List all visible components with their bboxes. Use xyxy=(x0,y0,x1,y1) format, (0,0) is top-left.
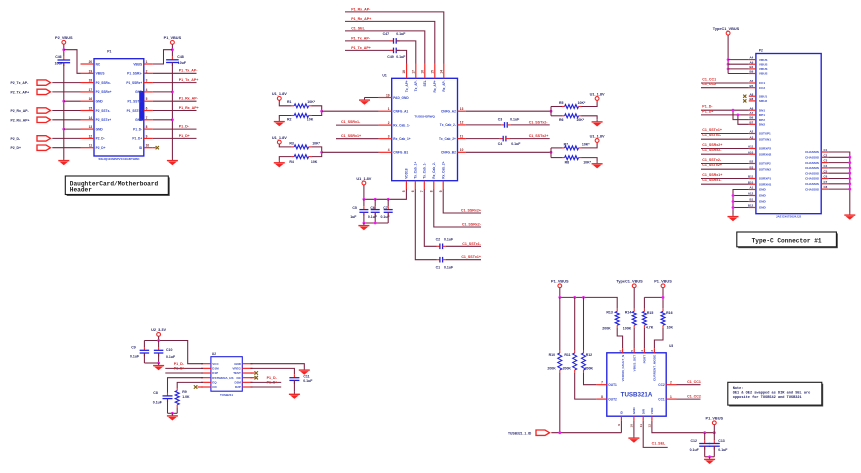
svg-text:SSTXN1: SSTXN1 xyxy=(759,137,771,141)
svg-text:GND: GND xyxy=(135,90,143,94)
svg-text:1: 1 xyxy=(388,107,390,111)
wire C1_SEL to pin16 xyxy=(345,31,425,64)
svg-text:P1_D-: P1_D- xyxy=(267,376,278,380)
wire C46 to ground bus xyxy=(63,63,65,158)
capacitor C2 xyxy=(436,237,454,249)
wire TypeC1_VBUS to R14 xyxy=(633,288,635,309)
wire CC2 net xyxy=(677,384,701,386)
svg-text:OE1 & OE2 swapped as DIR and S: OE1 & OE2 swapped as DIR and SEL are xyxy=(733,391,811,396)
no-connect CD xyxy=(194,385,198,389)
svg-text:P1_SSTx-: P1_SSTx- xyxy=(127,100,142,104)
svg-text:VBUS_DET: VBUS_DET xyxy=(632,355,636,372)
svg-text:P2_SSRx-: P2_SSRx- xyxy=(96,81,111,85)
wire C4 to C1_SSTx2+ xyxy=(509,138,549,140)
wire pin16 GND xyxy=(64,100,81,102)
wire EQ to R9 xyxy=(177,382,203,388)
svg-text:C1_SSTx1+: C1_SSTx1+ xyxy=(461,255,481,259)
ground C12 C13 xyxy=(704,457,715,464)
svg-text:0.1uF: 0.1uF xyxy=(153,401,163,405)
wire C1_CC1 xyxy=(701,82,749,84)
resistor R9 xyxy=(175,388,190,407)
ground C8 R9 xyxy=(167,413,178,420)
junction bottom rail C5 xyxy=(363,222,366,225)
junction GND row xyxy=(732,200,735,203)
svg-text:P2_D+: P2_D+ xyxy=(11,146,21,150)
svg-text:SSTXN2: SSTXN2 xyxy=(759,167,771,171)
wire VDD to vbus xyxy=(652,421,714,433)
svg-text:2: 2 xyxy=(670,381,672,385)
svg-text:C2: C2 xyxy=(436,237,441,241)
wire C10 drop xyxy=(158,341,160,348)
svg-text:P1_Tx_AP-: P1_Tx_AP- xyxy=(179,69,199,73)
ground C11 xyxy=(289,392,300,399)
svg-text:VBUS: VBUS xyxy=(96,72,105,76)
no-connect SBU2 xyxy=(743,99,746,102)
power symbol P2_VBUS xyxy=(55,36,73,44)
svg-text:TUSB542RWQ: TUSB542RWQ xyxy=(414,115,435,119)
svg-text:P2_Tx_AP+: P2_Tx_AP+ xyxy=(11,90,30,94)
svg-text:Header: Header xyxy=(70,187,92,194)
power symbol U1_1.8V (R5) xyxy=(590,92,605,100)
svg-text:CHASSIS: CHASSIS xyxy=(805,177,819,181)
svg-text:Tx_Cab_1+: Tx_Cab_1+ xyxy=(414,162,418,179)
svg-text:200K: 200K xyxy=(602,326,611,330)
svg-text:13: 13 xyxy=(460,107,464,111)
junction VBUS row 1 xyxy=(727,58,730,61)
wire TEST stub xyxy=(251,372,255,374)
svg-text:0.1uF: 0.1uF xyxy=(444,266,454,270)
svg-text:R6: R6 xyxy=(559,118,564,122)
wire VBUS row xyxy=(728,73,749,75)
svg-text:10uF: 10uF xyxy=(178,61,187,65)
junction GND pin7 xyxy=(171,118,174,121)
junction GND row xyxy=(732,194,735,197)
title box DaughterCard/Motherboard Header xyxy=(65,176,169,196)
svg-text:P1_VBUS: P1_VBUS xyxy=(164,36,182,40)
svg-text:PAD_GND: PAD_GND xyxy=(393,96,409,100)
wire chassis row xyxy=(828,178,850,180)
svg-text:P1_VBUS: P1_VBUS xyxy=(654,280,672,284)
wire D2M net xyxy=(251,381,282,383)
junction C13 xyxy=(713,431,716,434)
wire U1_1.8V to R3 xyxy=(279,144,291,147)
svg-text:R8: R8 xyxy=(565,160,570,164)
wire C5 bottom xyxy=(363,212,365,223)
power symbol U1_1.8V (VDD18) xyxy=(356,177,371,185)
svg-text:P2_Rx_AP+: P2_Rx_AP+ xyxy=(11,118,30,122)
svg-text:R10: R10 xyxy=(549,353,555,357)
svg-text:8: 8 xyxy=(601,395,603,399)
wire R2 to ground xyxy=(279,116,291,120)
wire U2_3.3V rail xyxy=(158,336,160,340)
svg-text:10: 10 xyxy=(630,424,634,428)
off-page connector P2_D- xyxy=(37,136,51,141)
capacitor C46 xyxy=(55,55,71,66)
svg-text:R1: R1 xyxy=(287,100,292,104)
svg-text:U2: U2 xyxy=(212,352,216,356)
resistor R2 xyxy=(287,114,314,122)
power symbol U1_1.8V (R3) xyxy=(272,136,287,144)
svg-text:11: 11 xyxy=(639,424,643,428)
wire R16 to pin CURRENT_MODE xyxy=(654,328,663,348)
off-page connector P2_Tx_AP+ xyxy=(37,89,51,94)
wire C5 drop xyxy=(363,199,365,206)
svg-text:C1_SSTx1+: C1_SSTx1+ xyxy=(702,128,722,132)
svg-text:4: 4 xyxy=(388,148,390,152)
wire caps bottom rail xyxy=(144,362,158,364)
wire C3 to C1_SSTx2- xyxy=(511,124,550,126)
power symbol U1_1.8V (R1) xyxy=(272,92,287,100)
svg-text:VBUS: VBUS xyxy=(759,72,768,76)
junction CNFG_A1 node xyxy=(320,110,323,113)
svg-text:C1_CC2: C1_CC2 xyxy=(687,394,701,398)
svg-text:opposite for TUSB542 and TUSB3: opposite for TUSB542 and TUSB321 xyxy=(733,395,802,400)
wire P2_VBUS to C46 xyxy=(63,44,65,56)
svg-text:VBUS: VBUS xyxy=(133,62,142,66)
power symbol U1_1.8V (R7) xyxy=(590,134,605,142)
svg-text:4.7K: 4.7K xyxy=(646,326,654,330)
svg-text:VDD18: VDD18 xyxy=(405,168,409,179)
svg-text:CNFG_B1: CNFG_B1 xyxy=(393,151,408,155)
svg-text:CHASSIS: CHASSIS xyxy=(805,161,819,165)
svg-text:0.1uF: 0.1uF xyxy=(510,118,520,122)
svg-text:SSHQ110NBPVC10GBTHBK: SSHQ110NBPVC10GBTHBK xyxy=(98,157,140,161)
svg-text:Rx_Cab_1+: Rx_Cab_1+ xyxy=(393,137,410,141)
svg-text:10K*: 10K* xyxy=(307,100,315,104)
svg-text:P1_Tx_AP+: P1_Tx_AP+ xyxy=(179,78,199,82)
wire GND row xyxy=(733,207,749,209)
wire chassis row xyxy=(828,183,850,185)
wire P1_Rx_AP+ to pin15 xyxy=(345,21,435,63)
wire C13 drop xyxy=(713,433,715,440)
wire node to R7/R8 xyxy=(550,148,552,158)
wire P1_D- row1 xyxy=(701,109,749,111)
svg-text:P1_D-: P1_D- xyxy=(133,127,142,131)
svg-text:PORT: PORT xyxy=(643,355,647,364)
connector P2 Type-C receptacle xyxy=(748,49,828,219)
svg-text:Tx_Cab_1-: Tx_Cab_1- xyxy=(423,163,427,179)
ground U3 xyxy=(628,436,639,443)
svg-text:GND: GND xyxy=(96,127,104,131)
junction ID R10 xyxy=(558,431,561,434)
wire GND to ground xyxy=(251,364,305,368)
svg-text:10K*: 10K* xyxy=(312,141,320,145)
wire R8 to ground xyxy=(581,158,597,162)
svg-text:CHASSIS: CHASSIS xyxy=(805,187,819,191)
wire chassis row xyxy=(828,162,850,164)
svg-text:200K: 200K xyxy=(585,366,594,370)
svg-text:10K: 10K xyxy=(307,118,314,122)
wire C1_SSRx2- xyxy=(701,153,749,155)
svg-text:CC2: CC2 xyxy=(759,86,765,90)
svg-text:P1_D+: P1_D+ xyxy=(179,134,190,138)
svg-text:P2_D-: P2_D- xyxy=(11,137,21,141)
wire U1_1.8V rail xyxy=(364,185,407,199)
svg-text:100K: 100K xyxy=(623,326,632,330)
wire P1_D- to D1M xyxy=(165,367,203,369)
wire R5 to U1_1.8V xyxy=(581,100,597,106)
resistor R12 xyxy=(582,350,594,372)
wire C48 to ground bus xyxy=(171,63,173,159)
svg-text:Rx_Cab_1-: Rx_Cab_1- xyxy=(393,123,409,127)
svg-text:19: 19 xyxy=(386,93,390,97)
svg-text:VBUS: VBUS xyxy=(759,58,768,62)
wire pin12 to C3 xyxy=(466,124,501,126)
wire pin10 to node xyxy=(466,151,551,153)
wire R3 to node xyxy=(311,147,322,157)
ground R2 xyxy=(274,119,285,126)
svg-text:10K*: 10K* xyxy=(583,160,591,164)
capacitor C10 xyxy=(154,347,176,359)
svg-text:GND: GND xyxy=(135,118,143,122)
svg-text:0.1uF: 0.1uF xyxy=(130,355,140,359)
wire node-R8 xyxy=(551,157,562,159)
svg-text:Tx_AP-: Tx_AP- xyxy=(414,80,418,91)
wire pin7 to C2 xyxy=(424,189,436,246)
svg-text:R16: R16 xyxy=(666,311,672,315)
ground U1 caps xyxy=(358,223,369,230)
svg-text:0.1uF: 0.1uF xyxy=(303,379,313,383)
wire P1_VBUS to C48 xyxy=(171,44,173,56)
svg-text:P1_D+: P1_D+ xyxy=(267,381,278,385)
svg-text:P1_D-: P1_D- xyxy=(702,105,713,109)
svg-text:C1_CC1: C1_CC1 xyxy=(687,380,701,384)
svg-text:8: 8 xyxy=(429,190,433,192)
svg-text:C1_SSTx2-: C1_SSTx2- xyxy=(702,158,722,162)
svg-text:GND: GND xyxy=(632,407,636,415)
wire node to CNFG_B1 pin4 xyxy=(322,151,379,153)
junction caps ground xyxy=(157,362,160,365)
wire pin11 to C4 xyxy=(466,138,500,140)
svg-text:P1_D+: P1_D+ xyxy=(132,137,142,141)
wire VBUS row xyxy=(728,59,749,61)
wire R10 to ID net xyxy=(559,373,561,433)
svg-text:C46: C46 xyxy=(55,55,61,59)
svg-text:CHASSIS: CHASSIS xyxy=(805,166,819,170)
wire 3.3V rail xyxy=(144,341,203,364)
svg-text:0.1uF: 0.1uF xyxy=(381,215,391,219)
resistor R7 xyxy=(562,142,590,150)
svg-text:DP2: DP2 xyxy=(759,118,765,122)
svg-text:C1_SSRx2-: C1_SSRx2- xyxy=(462,223,482,227)
op-amp U2 TUSB211 xyxy=(211,352,242,397)
wire chassis row xyxy=(828,188,850,190)
wire NC stub xyxy=(251,377,255,379)
title box Type-C Connector #1 xyxy=(737,232,838,248)
svg-text:P2_SSTx+: P2_SSTx+ xyxy=(96,118,112,122)
svg-text:C1_SSTx2+: C1_SSTx2+ xyxy=(702,163,722,167)
wire C49 to pin18 xyxy=(396,50,406,63)
svg-text:Rx_AP+: Rx_AP+ xyxy=(433,80,437,92)
svg-text:16: 16 xyxy=(420,70,424,74)
svg-text:VDD: VDD xyxy=(650,407,654,414)
ground PAD_GND xyxy=(359,98,370,105)
wire R12 to OUT1 xyxy=(584,373,597,385)
svg-text:P2_Tx_AP-: P2_Tx_AP- xyxy=(11,81,29,85)
wire C7 bottom xyxy=(387,212,389,223)
svg-text:3: 3 xyxy=(650,350,654,352)
svg-text:P1_SSTx+: P1_SSTx+ xyxy=(127,109,143,113)
wire TypeC1_VBUS bus xyxy=(727,35,729,74)
capacitor C13 xyxy=(709,439,729,452)
svg-text:VCONN_FAULT_N: VCONN_FAULT_N xyxy=(621,354,625,381)
ground R8 xyxy=(592,161,603,168)
wire C1_SSTx2- xyxy=(701,163,749,165)
note box xyxy=(728,382,823,406)
ground P2 xyxy=(728,214,739,221)
svg-text:Rx_Cab_2+: Rx_Cab_2+ xyxy=(441,161,445,178)
svg-text:P1_VBUS: P1_VBUS xyxy=(706,417,724,421)
svg-text:R13: R13 xyxy=(606,311,612,315)
svg-text:1: 1 xyxy=(670,395,672,399)
svg-text:10K: 10K xyxy=(667,326,674,330)
wire chassis row xyxy=(828,167,850,169)
svg-text:U1_1.8V: U1_1.8V xyxy=(272,92,287,96)
svg-text:SSRXP1: SSRXP1 xyxy=(759,177,771,181)
svg-text:SBU2: SBU2 xyxy=(759,99,768,103)
svg-text:EQ: EQ xyxy=(212,381,217,385)
wire VBUS row xyxy=(728,63,749,65)
power symbol P1_VBUS (caps) xyxy=(706,417,724,425)
svg-text:C1_CC2: C1_CC2 xyxy=(702,82,716,86)
svg-text:Tx_Cab_2+: Tx_Cab_2+ xyxy=(439,137,456,141)
svg-text:10K*: 10K* xyxy=(582,142,590,146)
svg-text:C1_SSRx2-: C1_SSRx2- xyxy=(702,148,722,152)
wire P2_Rx_AP- xyxy=(52,110,80,112)
svg-text:5: 5 xyxy=(402,190,406,192)
svg-text:4: 4 xyxy=(640,350,644,352)
svg-text:P2_D-: P2_D- xyxy=(96,137,105,141)
svg-text:SBU1: SBU1 xyxy=(759,94,768,98)
wire C8 bottom xyxy=(167,399,169,414)
svg-text:P1_SSRx+: P1_SSRx+ xyxy=(126,81,142,85)
wire C1_SSRx1+ xyxy=(701,178,749,180)
wire CC1 net xyxy=(677,398,701,400)
resistor R14 xyxy=(623,309,636,331)
svg-text:GND: GND xyxy=(759,188,767,192)
svg-text:3: 3 xyxy=(388,135,390,139)
svg-text:CC2: CC2 xyxy=(658,383,665,387)
svg-text:C9: C9 xyxy=(131,345,136,349)
svg-text:200K: 200K xyxy=(547,366,556,370)
junction P1_VBUS R16 xyxy=(662,296,665,299)
power symbol TypeC1_VBUS (U3) xyxy=(616,280,643,288)
wire chassis bus xyxy=(828,152,850,213)
wire caps rail xyxy=(705,456,715,458)
off-page connector P2_Rx_AP- xyxy=(37,108,51,113)
svg-text:P1_VBUS: P1_VBUS xyxy=(551,280,569,284)
junction C12 xyxy=(703,431,706,434)
svg-text:0.1uF: 0.1uF xyxy=(396,32,406,36)
wire pin13 GND xyxy=(64,128,81,130)
svg-text:0.1uF: 0.1uF xyxy=(166,355,176,359)
svg-text:P1_Tx_AP+: P1_Tx_AP+ xyxy=(351,46,371,50)
wire bus to R12 xyxy=(583,297,585,350)
svg-text:D1P: D1P xyxy=(212,371,218,375)
resistor R3 xyxy=(289,141,320,149)
svg-text:Rx_AP-: Rx_AP- xyxy=(442,80,446,91)
capacitor C7 xyxy=(381,206,393,219)
svg-text:Tx_Cab_2-: Tx_Cab_2- xyxy=(440,123,456,127)
svg-text:12: 12 xyxy=(648,424,652,428)
wire C12 drop xyxy=(704,433,706,440)
wire GND row xyxy=(733,201,749,203)
wire pin7 GND xyxy=(153,119,173,121)
wire R1 to node xyxy=(311,106,322,116)
svg-text:P2_SSTx-: P2_SSTx- xyxy=(96,109,111,113)
wire GND bus P2 xyxy=(733,190,749,215)
svg-text:OUT1: OUT1 xyxy=(608,383,617,387)
wire C6 drop xyxy=(374,199,376,206)
svg-text:11: 11 xyxy=(460,134,464,138)
svg-text:OUT2: OUT2 xyxy=(608,397,617,401)
svg-text:6: 6 xyxy=(618,350,622,352)
wire D+ fan xyxy=(738,115,749,124)
svg-text:SSRXP2: SSRXP2 xyxy=(759,147,771,151)
svg-text:P1_Rx_AP-: P1_Rx_AP- xyxy=(179,97,199,101)
wire P1_Rx_AP- to pin14 xyxy=(345,12,444,64)
wire pin10 stub ext xyxy=(153,147,156,149)
svg-text:C1_SSRx1+: C1_SSRx1+ xyxy=(702,173,722,177)
resistor R1 xyxy=(287,100,316,108)
wire P2_Tx_AP- xyxy=(52,82,80,84)
capacitor C6 xyxy=(368,206,380,219)
wire ID pin drop xyxy=(620,421,622,433)
wire bus to R10 xyxy=(559,297,561,350)
svg-text:CNFG_A1: CNFG_A1 xyxy=(393,110,408,114)
wire C2 to C1_SSTx1- xyxy=(446,245,481,247)
svg-text:C13: C13 xyxy=(718,439,724,443)
svg-text:R9: R9 xyxy=(182,390,187,394)
wire P1_D+ xyxy=(153,137,197,139)
wire R7 to U1_1.8V xyxy=(581,142,597,148)
power symbol U2_3.3V xyxy=(151,328,166,336)
svg-text:C12: C12 xyxy=(691,439,697,443)
svg-text:DN1: DN1 xyxy=(759,108,765,112)
svg-text:TEST: TEST xyxy=(233,371,241,375)
wire P1_VBUS to pin1 xyxy=(153,50,173,64)
svg-text:0.1uF: 0.1uF xyxy=(396,55,406,59)
svg-text:U2_3.3V: U2_3.3V xyxy=(151,328,166,332)
svg-text:GND: GND xyxy=(96,100,104,104)
junction chassis row xyxy=(848,156,851,159)
svg-text:P1_Rx_AP-: P1_Rx_AP- xyxy=(351,8,371,12)
wire pin6 to C1 xyxy=(415,189,436,260)
wire chassis row xyxy=(828,156,850,158)
svg-text:SSRXN1: SSRXN1 xyxy=(759,182,772,186)
wire R15 drop xyxy=(643,297,645,308)
svg-text:9: 9 xyxy=(617,424,621,426)
wire P2_D- xyxy=(52,137,80,139)
svg-text:SEL: SEL xyxy=(423,80,427,86)
power symbol TypeC1_VBUS xyxy=(713,27,740,35)
svg-text:18: 18 xyxy=(402,70,406,74)
wire R15 to pin PORT xyxy=(643,328,645,348)
svg-text:R3: R3 xyxy=(289,141,294,145)
svg-text:10: 10 xyxy=(460,148,464,152)
wire DIR to C1_SEL xyxy=(643,421,668,448)
wire bus to R11 xyxy=(574,297,576,350)
no-connect NC pin xyxy=(254,376,258,380)
wire pin13 to node xyxy=(466,110,551,112)
svg-text:C1_SSTx2+: C1_SSTx2+ xyxy=(529,134,549,138)
connector P1 DaughterCard header xyxy=(81,49,153,161)
svg-text:R7: R7 xyxy=(564,142,569,146)
ground R4 xyxy=(274,160,285,167)
svg-text:TypeC1_VBUS: TypeC1_VBUS xyxy=(616,280,643,284)
wire U3 GND xyxy=(633,421,635,436)
junction rail C10 xyxy=(157,339,160,342)
